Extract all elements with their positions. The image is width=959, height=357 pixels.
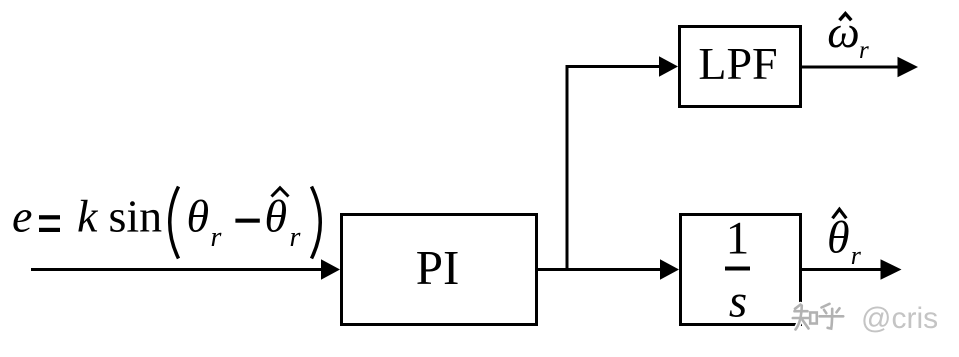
svg-text:@cris: @cris — [861, 302, 938, 335]
wire: branch vertical riser — [566, 67, 569, 272]
label: theta_hat_r (angle output) — [827, 209, 862, 269]
svg-text:1: 1 — [726, 213, 750, 265]
block 1/s integrator — [681, 213, 801, 328]
svg-text:LPF: LPF — [698, 38, 777, 89]
block LPF — [680, 27, 801, 107]
wire: PI output to 1/s — [538, 268, 661, 271]
svg-text:sin: sin — [109, 191, 163, 242]
svg-text:PI: PI — [416, 240, 460, 295]
wire: LPF output — [802, 66, 899, 69]
wire: branch horizontal to LPF — [566, 65, 661, 68]
svg-text:s: s — [729, 276, 747, 328]
arrowhead: 1/s output — [881, 259, 902, 279]
label: omega_hat_r (speed output) — [827, 6, 869, 64]
svg-text:r: r — [851, 241, 862, 270]
arrowhead: into 1/s — [660, 259, 679, 279]
svg-text:e: e — [12, 191, 32, 242]
svg-text:θ: θ — [187, 191, 210, 242]
watermark: zhihu @cris — [793, 302, 938, 335]
wire: input into PI — [31, 268, 323, 271]
svg-text:r: r — [859, 37, 869, 64]
arrowhead: input into PI — [321, 259, 340, 279]
svg-text:r: r — [211, 222, 222, 253]
arrowhead: into LPF — [659, 56, 678, 76]
block PI — [342, 215, 537, 325]
svg-text:θ: θ — [265, 191, 288, 242]
svg-text:k: k — [77, 191, 99, 242]
wire: 1/s output — [802, 268, 881, 271]
equation label: e = k sin( theta_r - theta_hat_r ) — [12, 187, 320, 259]
arrowhead: LPF output — [898, 57, 919, 78]
svg-text:θ: θ — [827, 211, 850, 262]
svg-text:r: r — [290, 222, 301, 253]
